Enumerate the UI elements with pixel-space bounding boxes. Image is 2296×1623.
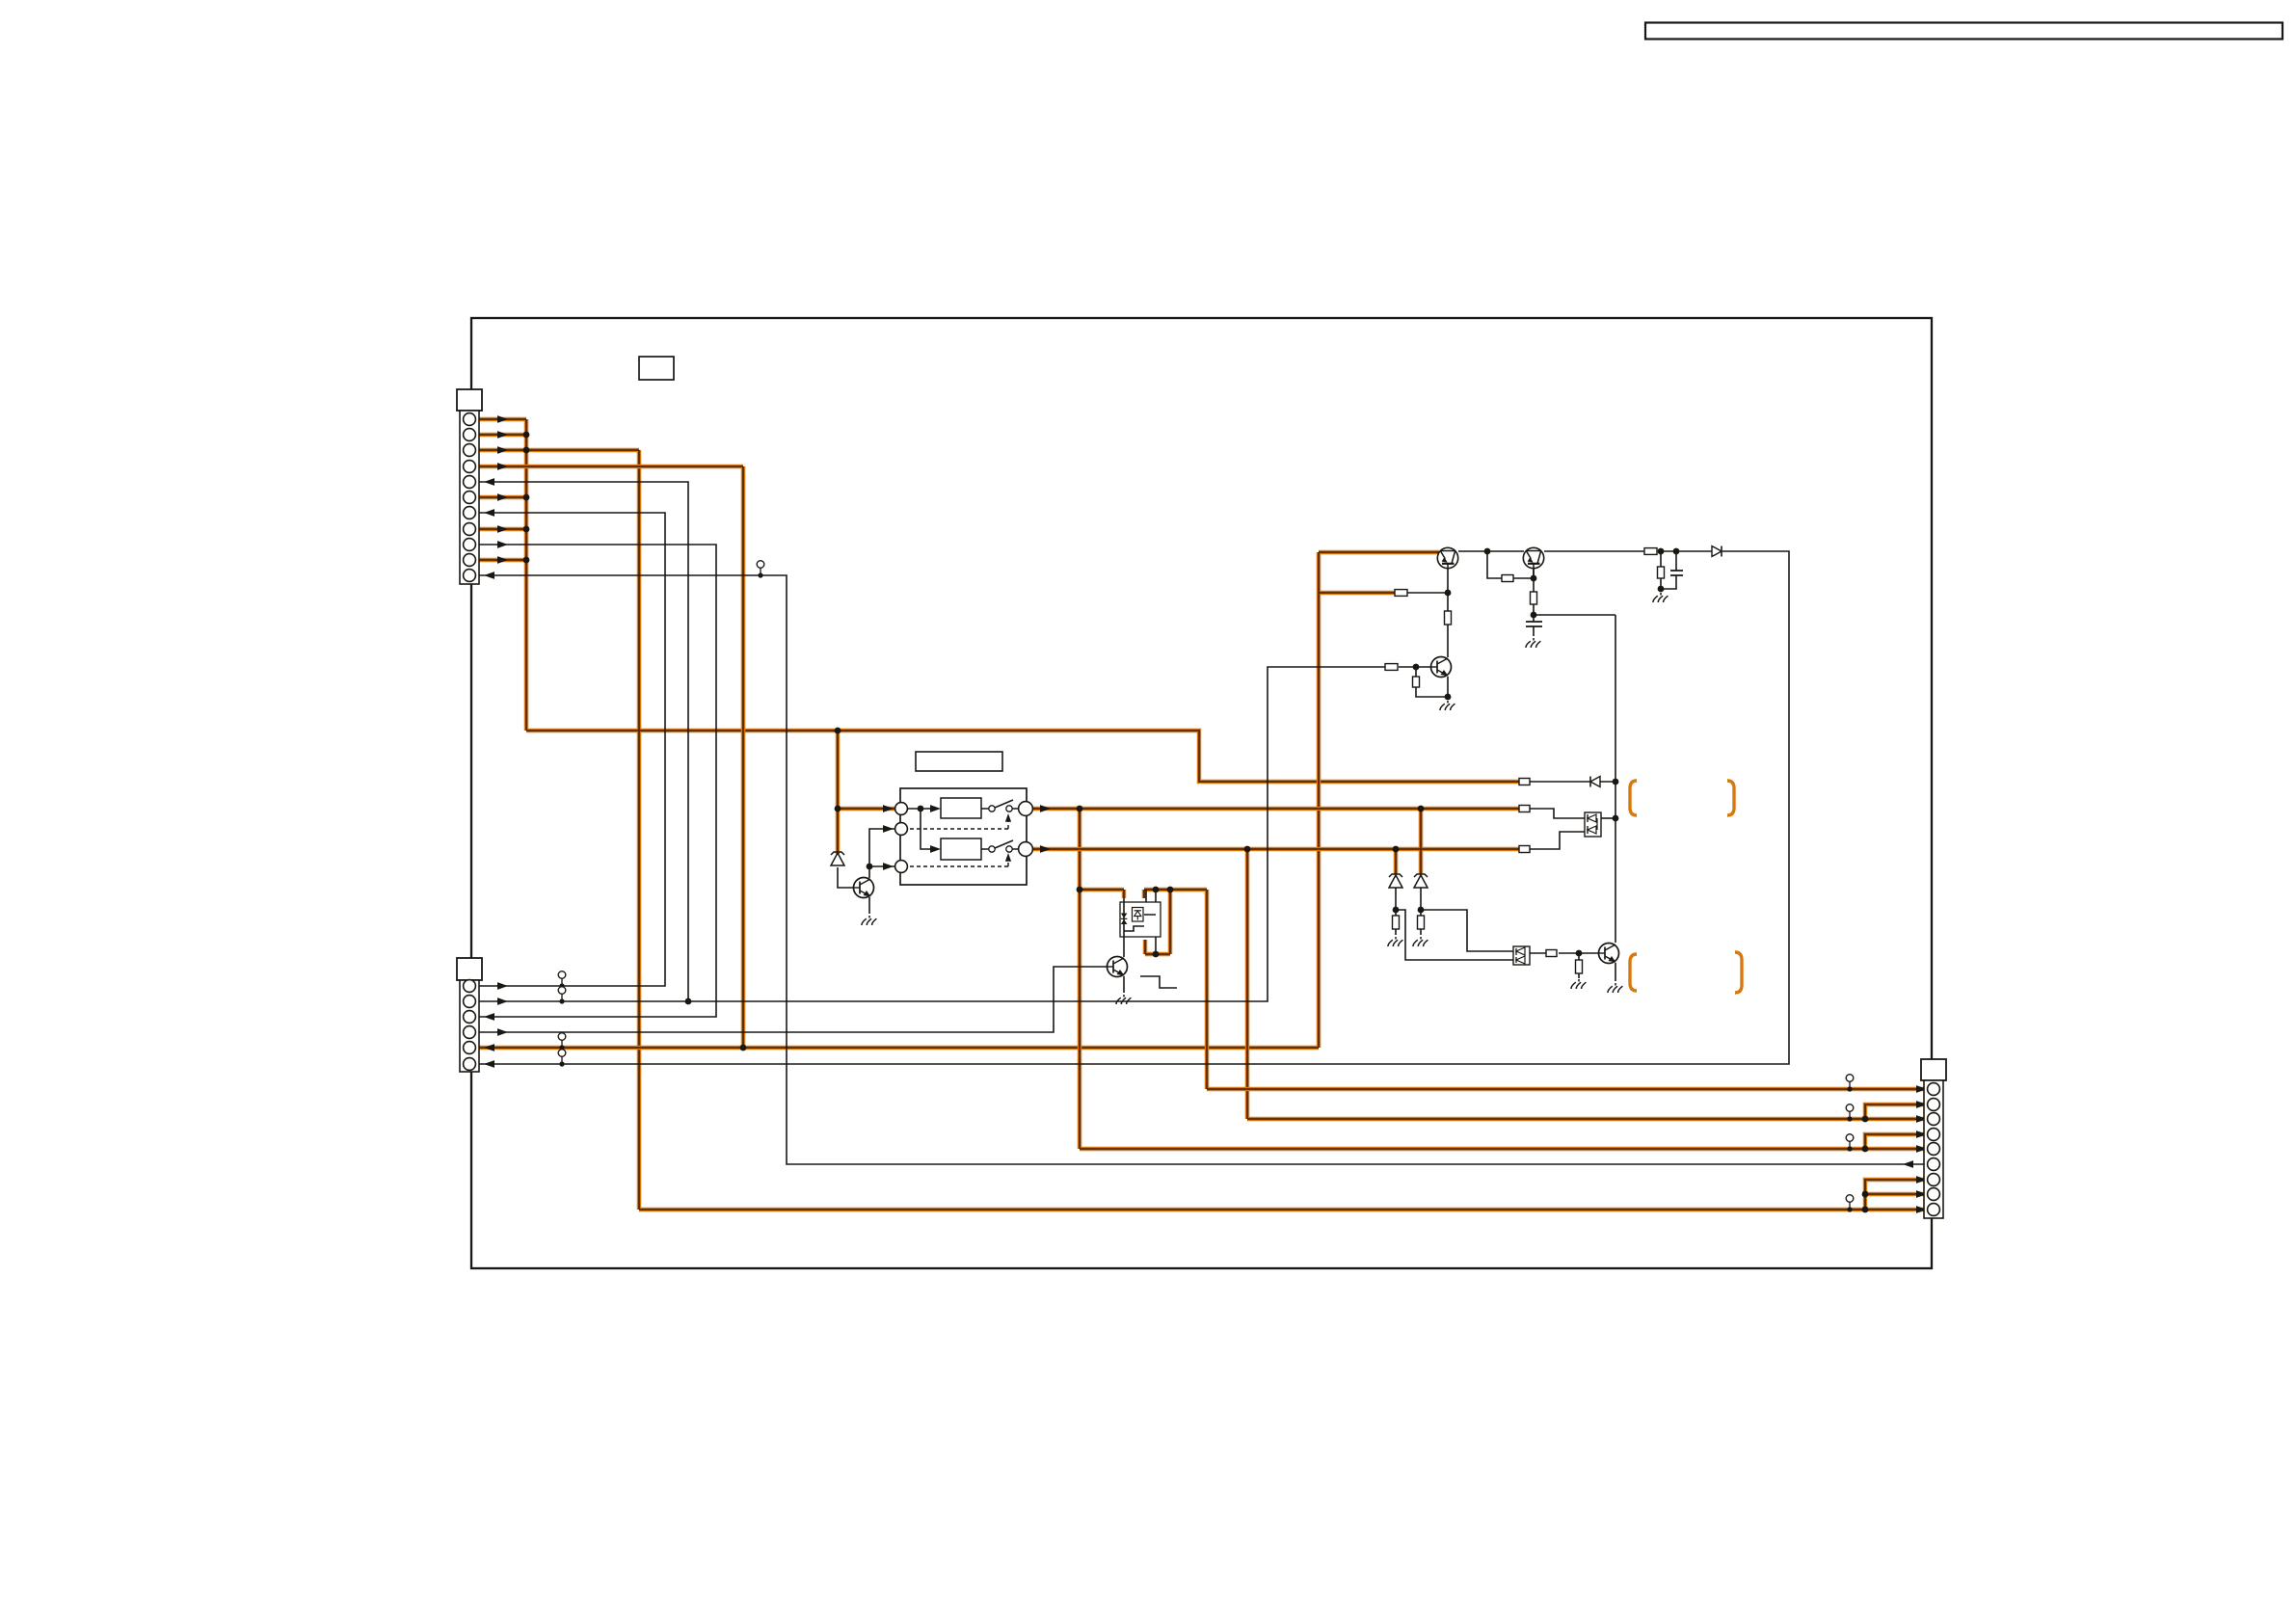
junction CN1 pin6 xyxy=(523,494,530,501)
wire CN2 pin4 to Q5 base xyxy=(476,967,1107,1032)
junction Q3 base xyxy=(1413,664,1420,671)
wire photoMOS gate trace xyxy=(1124,915,1156,931)
relay contact point 2b xyxy=(1006,846,1012,852)
arrow CN3 pin5 xyxy=(1916,1145,1927,1153)
relay pin R2 xyxy=(1019,842,1033,857)
title block rectangle (empty) xyxy=(1645,23,2283,40)
junction zener ZD3 load xyxy=(1418,907,1425,914)
junction Q1 emitter tap xyxy=(1445,590,1452,597)
capacitor C1 (Q2 emitter) xyxy=(1526,622,1542,626)
ground (zener ZD2 load) xyxy=(1388,937,1402,946)
relay contact point 2a xyxy=(989,846,995,852)
wire photoMOS right pins xyxy=(1146,890,1156,954)
junction Q2 emitter node xyxy=(1531,612,1537,619)
transistor Q5 xyxy=(1108,957,1128,977)
wire Q4 collector to relay L2 L3 xyxy=(869,829,894,878)
test point CN2 pin1 xyxy=(558,971,566,989)
transistor Q6 xyxy=(1599,944,1619,964)
transistor Q3 xyxy=(1431,657,1452,678)
junction zener ZD2 load xyxy=(1393,907,1400,914)
ground (Q2 emitter cap) xyxy=(1526,638,1540,648)
wire CN1 pin11 to CN3 pin6 xyxy=(476,575,1927,1164)
junction R2 output drop xyxy=(1244,846,1251,853)
arrow relay coil 2 xyxy=(930,845,941,853)
junction CN3 pin9 riser xyxy=(1862,1207,1869,1213)
junction RC filter gnd xyxy=(1658,586,1665,593)
arrow CN2 pin4 xyxy=(497,1028,508,1036)
arrow CN3 pin8 xyxy=(1916,1190,1927,1198)
wire right rail Q2 node to Q6 collector xyxy=(1615,615,1616,943)
junction CN1 pin2 xyxy=(523,432,530,439)
junction CN3 pin8 riser xyxy=(1862,1191,1869,1198)
connector CN3 xyxy=(1921,1059,1946,1218)
test point CN2 pin6 xyxy=(558,1050,566,1067)
diode D1 (bus line) xyxy=(1590,777,1600,787)
wire net relay R1 output to photoMOS and opto PC1 and CN3 pin5 xyxy=(1032,809,1927,1149)
arrow CN1 pin7 xyxy=(484,509,494,517)
wire Q6 emitter to ground xyxy=(1615,963,1616,981)
arrow CN3 pin4 xyxy=(1916,1131,1927,1138)
wire CN1 pin5 to CN2 pin2 junction xyxy=(476,482,688,1001)
optocoupler PC2 box xyxy=(1513,946,1530,965)
test point CN3 pin3 xyxy=(1846,1104,1854,1122)
junction zener ZD2 drop xyxy=(1393,846,1400,853)
junction photoMOS loop top xyxy=(1167,887,1174,893)
main board border xyxy=(471,318,1932,1268)
diode D2 (top rail) xyxy=(1712,546,1722,557)
junction Q6 base xyxy=(1576,950,1583,957)
resistor R12 (Q3 base pulldown) xyxy=(1413,677,1420,687)
junction zener ZD3 drop xyxy=(1418,806,1425,812)
step waveform annotation xyxy=(1140,976,1177,988)
zener ZD1 xyxy=(831,852,844,865)
resistor R1 (bus) xyxy=(1519,779,1530,785)
junction photoMOS branch xyxy=(1077,887,1083,893)
resistor R14 (zener ZD3 load) xyxy=(1418,916,1425,929)
transistor Q2 xyxy=(1523,547,1543,568)
wire CN1 pin9 to CN2 pin3 xyxy=(476,545,716,1017)
wire net relay R2 output to zener and opto PC2 and CN3 pin3 xyxy=(1032,809,1927,1119)
junction R1 output drop xyxy=(1077,806,1083,812)
arrow relay R1 output xyxy=(1040,805,1051,812)
wire Q3 base segment and pulldown xyxy=(1399,667,1448,699)
junction diode D1 to rail xyxy=(1613,779,1619,785)
relay pin L3 xyxy=(895,861,908,873)
wire net +B bus (CN1 pins 1,2,3,6,8,10 to diode node and CN3 pin9) xyxy=(476,419,1927,1210)
wire Q5 collector to photoMOS xyxy=(1123,898,1125,957)
arrow CN3 pin9 xyxy=(1916,1206,1927,1213)
arrow CN1 pin11 xyxy=(484,572,494,579)
wire relay internal feed xyxy=(908,809,933,849)
photoMOS relay block outline xyxy=(1120,902,1161,937)
orange bracket lower right xyxy=(1735,952,1742,993)
resistor R11 (Q1-Q3 link) xyxy=(1445,611,1452,625)
ground (Q3 emitter) xyxy=(1440,701,1455,710)
arrow relay L3 input xyxy=(883,863,894,870)
junction CN3 pin3 riser xyxy=(1862,1116,1869,1123)
arrow CN1 pin1 xyxy=(497,415,508,423)
arrow relay coil 1 xyxy=(930,805,941,812)
relay RY1 label box xyxy=(916,752,1002,771)
wire CN2 pin6 to diode D2 node via right drop xyxy=(476,551,1789,1064)
small reference square xyxy=(639,357,674,380)
wire R-C filter at top right xyxy=(1661,551,1676,591)
junction CN1 pin10 xyxy=(523,557,530,564)
junction CN2 pin5 vertical xyxy=(740,1045,747,1051)
arrow CN2 pin5 xyxy=(484,1044,494,1051)
ground (Q5 emitter) xyxy=(1116,995,1131,1004)
wire net CN1 pin4 / CN2 pin5 / Q1 collector xyxy=(476,466,1439,1048)
arrow CN1 pin8 xyxy=(497,525,508,533)
wire CN2 pin2 to Q3 base network xyxy=(476,667,1385,1001)
arrow CN1 pin2 xyxy=(497,431,508,439)
wire Q4 emitter to ground xyxy=(868,897,870,914)
wire relay contact row 1 xyxy=(981,808,1019,810)
resistor R6 (Q1 emitter tap) xyxy=(1395,590,1407,597)
wire zener ZD3 leg and branch to opto PC2 upper xyxy=(1421,888,1513,951)
junction RC filter b xyxy=(1673,548,1680,555)
arrow relay L1 input xyxy=(883,805,894,812)
junction relay feed xyxy=(918,806,924,812)
junction CN2 pin2 vertical xyxy=(685,998,692,1005)
ground (Q6 base pulldown) xyxy=(1571,979,1586,989)
wire opto PC1 output to right rail xyxy=(1601,817,1615,819)
connector CN1 xyxy=(457,389,482,584)
test point CN3 pin1 xyxy=(1846,1075,1854,1092)
arrow relay L2 input xyxy=(883,825,894,833)
ground (Q4 emitter) xyxy=(862,916,876,925)
junction photoMOS pin b xyxy=(1153,951,1160,958)
relay contact point 1b xyxy=(1006,806,1012,811)
resistor R7 (Q3 base) xyxy=(1385,664,1398,671)
optocoupler PC1 box xyxy=(1585,812,1601,837)
relay pin R1 xyxy=(1019,802,1033,816)
optocoupler PC2 diodes xyxy=(1516,947,1525,964)
resistor R3 (opto PC1 lower) xyxy=(1519,846,1530,853)
junction bus split xyxy=(835,728,841,734)
junction Q3 emitter xyxy=(1445,694,1452,701)
transistor Q4 xyxy=(854,878,874,898)
wire Q2 base divider xyxy=(1487,551,1615,636)
zener ZD3 xyxy=(1414,874,1428,888)
ground (RC filter) xyxy=(1653,593,1668,602)
resistor R15 (Q6 base pulldown) xyxy=(1576,960,1583,973)
wire opto PC1 input lower from resistor xyxy=(1529,832,1585,849)
arrow CN1 pin9 xyxy=(497,541,508,548)
arrow relay actuator 2 xyxy=(1005,853,1011,862)
relay RY1 coil box 1 xyxy=(941,798,981,818)
wire Q3 emitter ground stub xyxy=(1447,697,1449,699)
resistor R4 (top rail) xyxy=(1644,548,1657,555)
capacitor C2 (RC filter) xyxy=(1670,571,1683,575)
resistor R2 (opto PC1 upper) xyxy=(1519,806,1530,812)
arrow CN2 pin6 xyxy=(484,1060,494,1068)
photoMOS MOSFET cell xyxy=(1133,908,1144,922)
wire opto PC2 output to Q6 base xyxy=(1530,953,1599,978)
junction opto PC1 to rail xyxy=(1613,815,1619,822)
arrow CN1 pin4 xyxy=(497,463,508,470)
junction Q1 output xyxy=(1484,548,1491,555)
connector CN2 xyxy=(457,958,482,1072)
junction photoMOS pin a xyxy=(1153,887,1160,893)
wire opto PC1 input upper from resistor xyxy=(1529,809,1585,818)
resistor R13 (zener ZD2 load) xyxy=(1393,916,1400,929)
relay contact lever 2 xyxy=(995,840,1013,848)
junction CN1 pin8 xyxy=(523,526,530,533)
arrow CN1 pin3 xyxy=(497,446,508,454)
wire Q4 base from zener ZD1 xyxy=(838,867,853,888)
junction RC filter a xyxy=(1658,548,1665,555)
wire Q2 base resistor tap to Q2 xyxy=(1524,569,1534,578)
arrow CN3 pin2 xyxy=(1916,1101,1927,1108)
relay contact lever 1 xyxy=(995,800,1013,808)
wire diode D1 line from bus resistor xyxy=(1529,781,1615,783)
arrow CN3 pin6 xyxy=(1903,1160,1913,1168)
dashed control link L3 to contact 2 xyxy=(910,859,1008,866)
wire photoMOS internal left line xyxy=(1123,902,1125,937)
arrow CN3 pin3 xyxy=(1916,1115,1927,1123)
resistor R10 (RC filter) xyxy=(1658,567,1665,578)
ground (zener ZD3 load) xyxy=(1413,937,1428,946)
wire net photoMOS output loop to CN3 pin1 xyxy=(1144,890,1927,1089)
orange bracket upper left xyxy=(1630,781,1637,815)
test point CN3 pin9 xyxy=(1846,1195,1854,1212)
orange bracket upper right xyxy=(1727,781,1734,815)
junction CN3 pin5 riser xyxy=(1862,1146,1869,1153)
photoMOS TVS diode pair xyxy=(1121,914,1128,925)
arrow CN2 pin2 xyxy=(497,998,508,1005)
arrow CN1 pin10 xyxy=(497,556,508,564)
ground (Q6 emitter) xyxy=(1608,983,1622,993)
resistor R5 (Q2 base) xyxy=(1502,575,1513,582)
relay RY1 outline xyxy=(900,788,1027,885)
arrow CN3 pin7 xyxy=(1916,1176,1927,1184)
test point CN3 pin5 xyxy=(1846,1134,1854,1152)
wire CN1 pin7 to CN2 pin1 xyxy=(476,513,665,986)
arrow CN1 pin5 xyxy=(484,478,494,486)
zener ZD2 xyxy=(1389,874,1402,888)
relay contact point 1a xyxy=(989,806,995,811)
dashed control link L2 to contact 1 xyxy=(910,819,1008,829)
junction CN1 pin3 xyxy=(523,447,530,454)
wire Q5 emitter to ground xyxy=(1123,976,1125,993)
relay pin L1 xyxy=(895,803,908,815)
relay RY1 coil box 2 xyxy=(941,838,981,860)
junction Q4 collector xyxy=(867,864,873,870)
resistor R9 (Q2 emitter) xyxy=(1531,592,1537,604)
test point CN2 pin5 xyxy=(558,1033,566,1051)
arrow CN3 pin1 xyxy=(1916,1085,1927,1093)
arrow relay R2 output xyxy=(1040,845,1051,853)
arrow relay actuator 1 xyxy=(1005,813,1011,822)
arrow CN1 pin6 xyxy=(497,493,508,501)
wire relay contact row 2 xyxy=(981,848,1019,850)
transistor Q1 xyxy=(1437,547,1457,568)
orange bracket lower left xyxy=(1630,954,1637,991)
relay pin L2 xyxy=(895,823,908,836)
arrow CN2 pin1 xyxy=(497,982,508,990)
optocoupler PC1 diodes xyxy=(1588,814,1597,834)
arrow CN2 pin3 xyxy=(484,1013,494,1021)
resistor R8 (opto PC2 out) xyxy=(1546,950,1557,957)
wire Q1 emitter chain to Q3 xyxy=(1407,569,1448,657)
junction Q2 base xyxy=(1531,575,1537,582)
wire zener ZD2 leg and branch to opto PC2 lower xyxy=(1396,888,1513,960)
wire Q1 Q2 top rail xyxy=(1458,550,1712,552)
junction L1 branch xyxy=(835,806,841,812)
test point CN1 pin11 xyxy=(757,561,764,578)
test point CN2 pin2 xyxy=(558,987,566,1004)
